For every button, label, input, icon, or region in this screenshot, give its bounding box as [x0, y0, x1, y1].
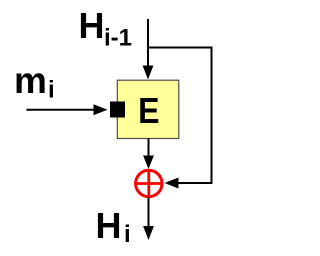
wire branch right from Hi-1 — [147, 48, 212, 184]
svg-text:i: i — [48, 77, 55, 104]
node H_i label — [96, 205, 131, 248]
arrowhead into XOR top — [143, 156, 154, 170]
arrowhead into E top — [143, 66, 154, 80]
svg-text:i: i — [124, 221, 131, 248]
key input square — [110, 102, 125, 118]
node H_{i-1} label — [79, 5, 133, 52]
arrowhead into key square — [94, 104, 108, 115]
arrowhead output — [143, 226, 154, 240]
wire Hi-1 vertical into E — [147, 19, 149, 66]
wire XOR to output — [148, 198, 150, 227]
svg-text:H: H — [96, 205, 122, 246]
svg-text:H: H — [79, 5, 105, 46]
wire m_i horizontal — [27, 109, 95, 111]
svg-text:i-1: i-1 — [104, 25, 132, 52]
wire E to XOR — [148, 139, 150, 157]
svg-text:m: m — [14, 60, 47, 101]
XOR circle — [136, 170, 162, 196]
block cipher E box — [117, 80, 179, 138]
node m_i label — [14, 60, 55, 104]
arrowhead into XOR right — [165, 178, 179, 189]
svg-text:E: E — [138, 91, 159, 131]
